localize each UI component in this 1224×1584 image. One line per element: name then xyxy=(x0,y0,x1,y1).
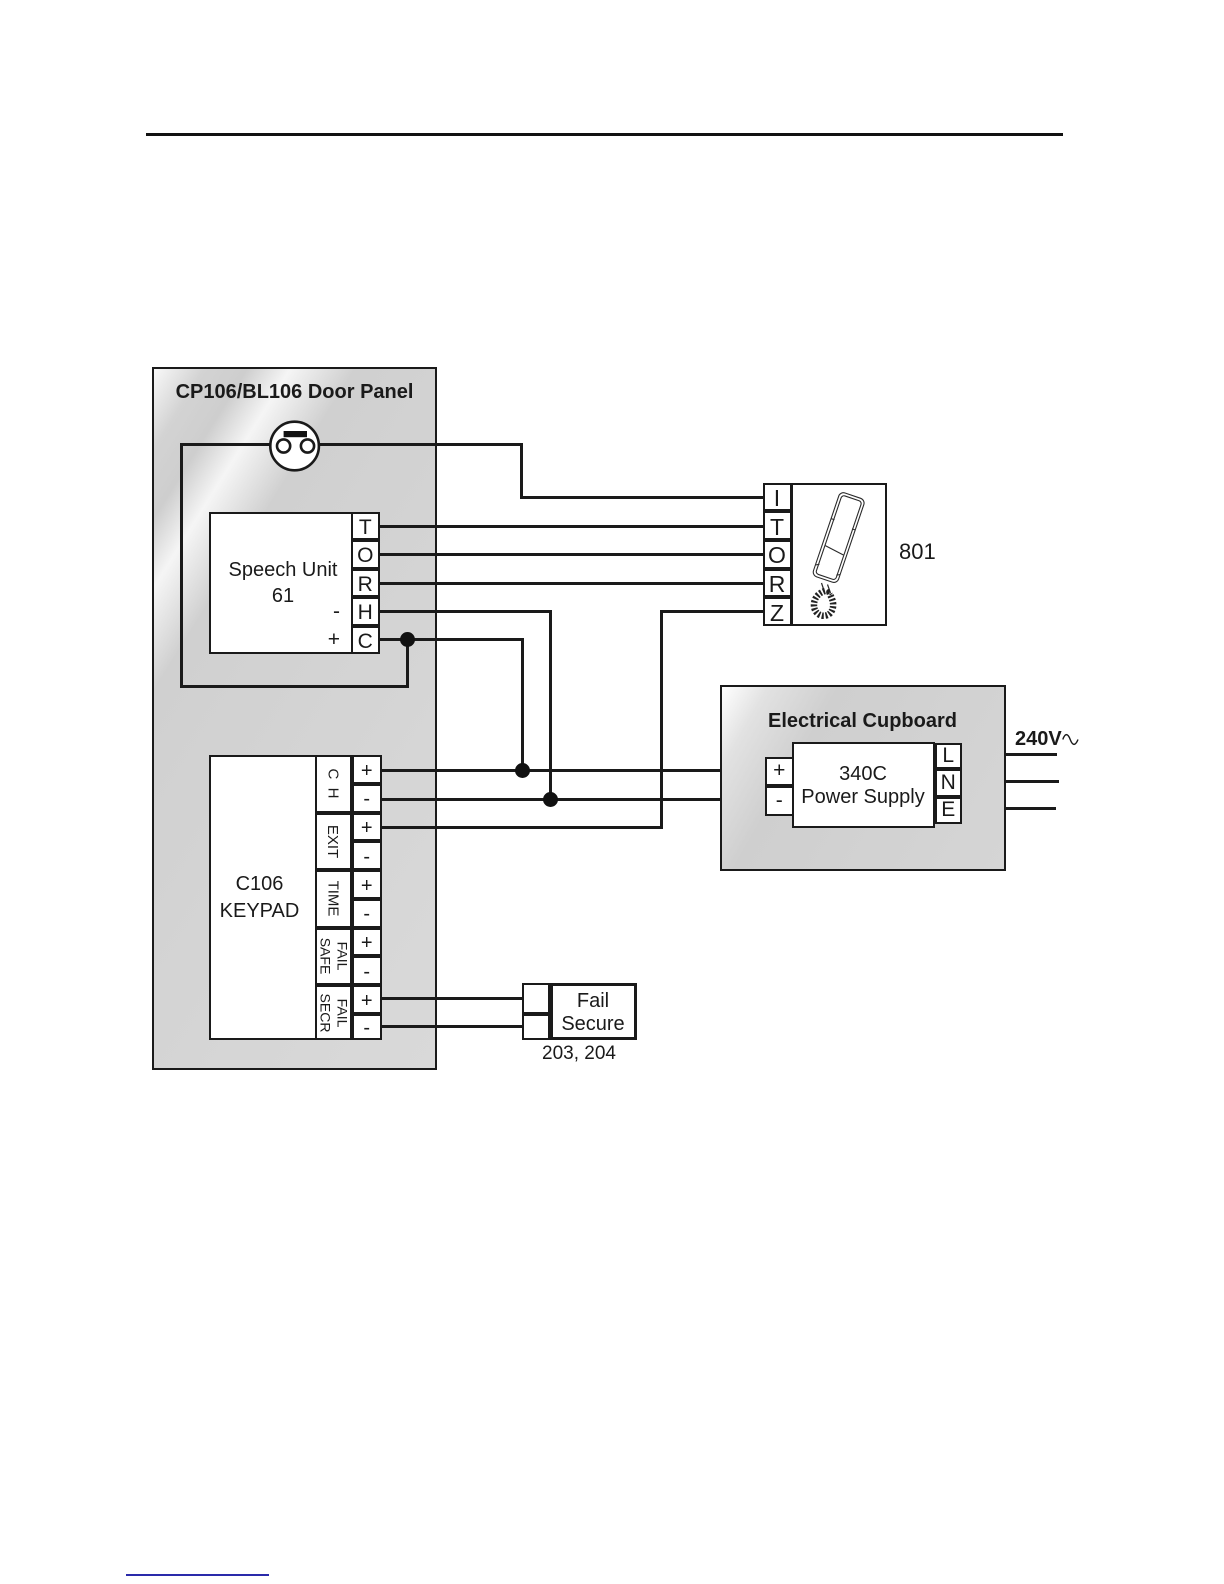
door panel CP106/BL106 enclosure xyxy=(152,367,437,1070)
wire: fail secure plus xyxy=(382,997,523,1001)
PSU L terminal xyxy=(935,743,963,769)
electrical cupboard enclosure xyxy=(720,685,1006,871)
junction minus rail node xyxy=(543,792,558,807)
speech unit box xyxy=(209,512,380,654)
PSU N terminal xyxy=(935,769,963,797)
wire: loop bottom horizontal xyxy=(180,685,409,688)
wire: CH plus rail keypad to PSU + xyxy=(382,769,766,772)
wire: O speech to phone xyxy=(379,553,764,556)
keypad terminal TIME+ xyxy=(352,870,383,899)
wire: H speech horizontal xyxy=(379,610,552,613)
keypad terminal CH+ xyxy=(352,755,383,784)
keypad label FAIL SECR xyxy=(315,985,352,1040)
wire: H vertical down to minus rail xyxy=(549,610,552,801)
wire: CH minus rail keypad to PSU - xyxy=(382,798,766,801)
keypad label EXIT xyxy=(315,813,352,871)
wire: Z horizontal at phone xyxy=(660,610,764,613)
wire: L mains xyxy=(961,753,1057,756)
keypad label C H xyxy=(315,755,352,813)
keypad terminal EXIT+ xyxy=(352,813,383,842)
keypad label TIME xyxy=(315,870,352,928)
wire: branch vertical up to C junction xyxy=(406,640,409,688)
plus label at C xyxy=(314,628,340,652)
speaker symbol xyxy=(268,419,322,473)
minus label at H xyxy=(314,600,340,624)
keypad terminal CH- xyxy=(352,784,383,813)
label 203, 204 xyxy=(521,1043,637,1065)
keypad terminal FAILSAFE- xyxy=(352,956,383,985)
wire: C vertical down to plus rail xyxy=(521,638,524,772)
handset drawing xyxy=(791,483,887,626)
speech terminal C xyxy=(351,626,380,654)
speech terminal T xyxy=(351,512,380,540)
keypad terminal EXIT- xyxy=(352,841,383,870)
top header rule xyxy=(146,133,1063,136)
PSU E terminal xyxy=(935,797,963,824)
wire: Z vertical down to EXIT+ level xyxy=(660,610,663,828)
fail secure lock box xyxy=(550,983,637,1041)
phone terminal Z xyxy=(763,597,792,626)
wire: speaker right horizontal xyxy=(318,443,522,446)
door panel title xyxy=(152,382,437,402)
wire: N mains xyxy=(961,780,1059,783)
fail secure terminal lower xyxy=(522,1014,550,1041)
sine symbol xyxy=(1062,732,1079,747)
keypad terminal FAILSAFE+ xyxy=(352,928,383,957)
keypad label FAIL SAFE xyxy=(315,928,352,986)
speech terminal R xyxy=(351,569,380,597)
wire: C speech horizontal xyxy=(379,638,524,641)
phone terminal I xyxy=(763,483,792,512)
PSU - terminal xyxy=(765,786,795,816)
phone terminal T xyxy=(763,511,792,540)
junction C node xyxy=(400,632,415,647)
keypad terminal FAILSECR+ xyxy=(352,985,383,1014)
wire: EXIT+ horizontal xyxy=(382,826,663,829)
wire: speaker left to loop xyxy=(180,443,272,446)
handset 801 box xyxy=(791,483,887,627)
phone terminal R xyxy=(763,569,792,598)
wire: down to I level xyxy=(520,443,523,498)
wire: T speech to phone xyxy=(379,525,764,528)
C106 keypad box xyxy=(209,755,382,1040)
240V label xyxy=(1015,729,1067,749)
keypad terminal FAILSECR- xyxy=(352,1014,383,1040)
wire: R speech to phone xyxy=(379,582,764,585)
speech terminal O xyxy=(351,540,380,568)
PSU + terminal xyxy=(765,757,795,787)
junction plus rail node xyxy=(515,763,530,778)
footer blue line xyxy=(126,1574,269,1576)
wire: fail secure minus xyxy=(382,1025,523,1028)
wire: E mains xyxy=(961,807,1056,810)
wire: loop left vertical xyxy=(180,443,183,688)
speech terminal H xyxy=(351,597,380,625)
label 801 xyxy=(899,541,939,563)
wire: to phone I terminal xyxy=(520,496,764,499)
fail secure terminal upper xyxy=(522,983,550,1014)
keypad terminal TIME- xyxy=(352,899,383,928)
phone terminal O xyxy=(763,540,792,569)
340C power supply box xyxy=(792,742,935,828)
